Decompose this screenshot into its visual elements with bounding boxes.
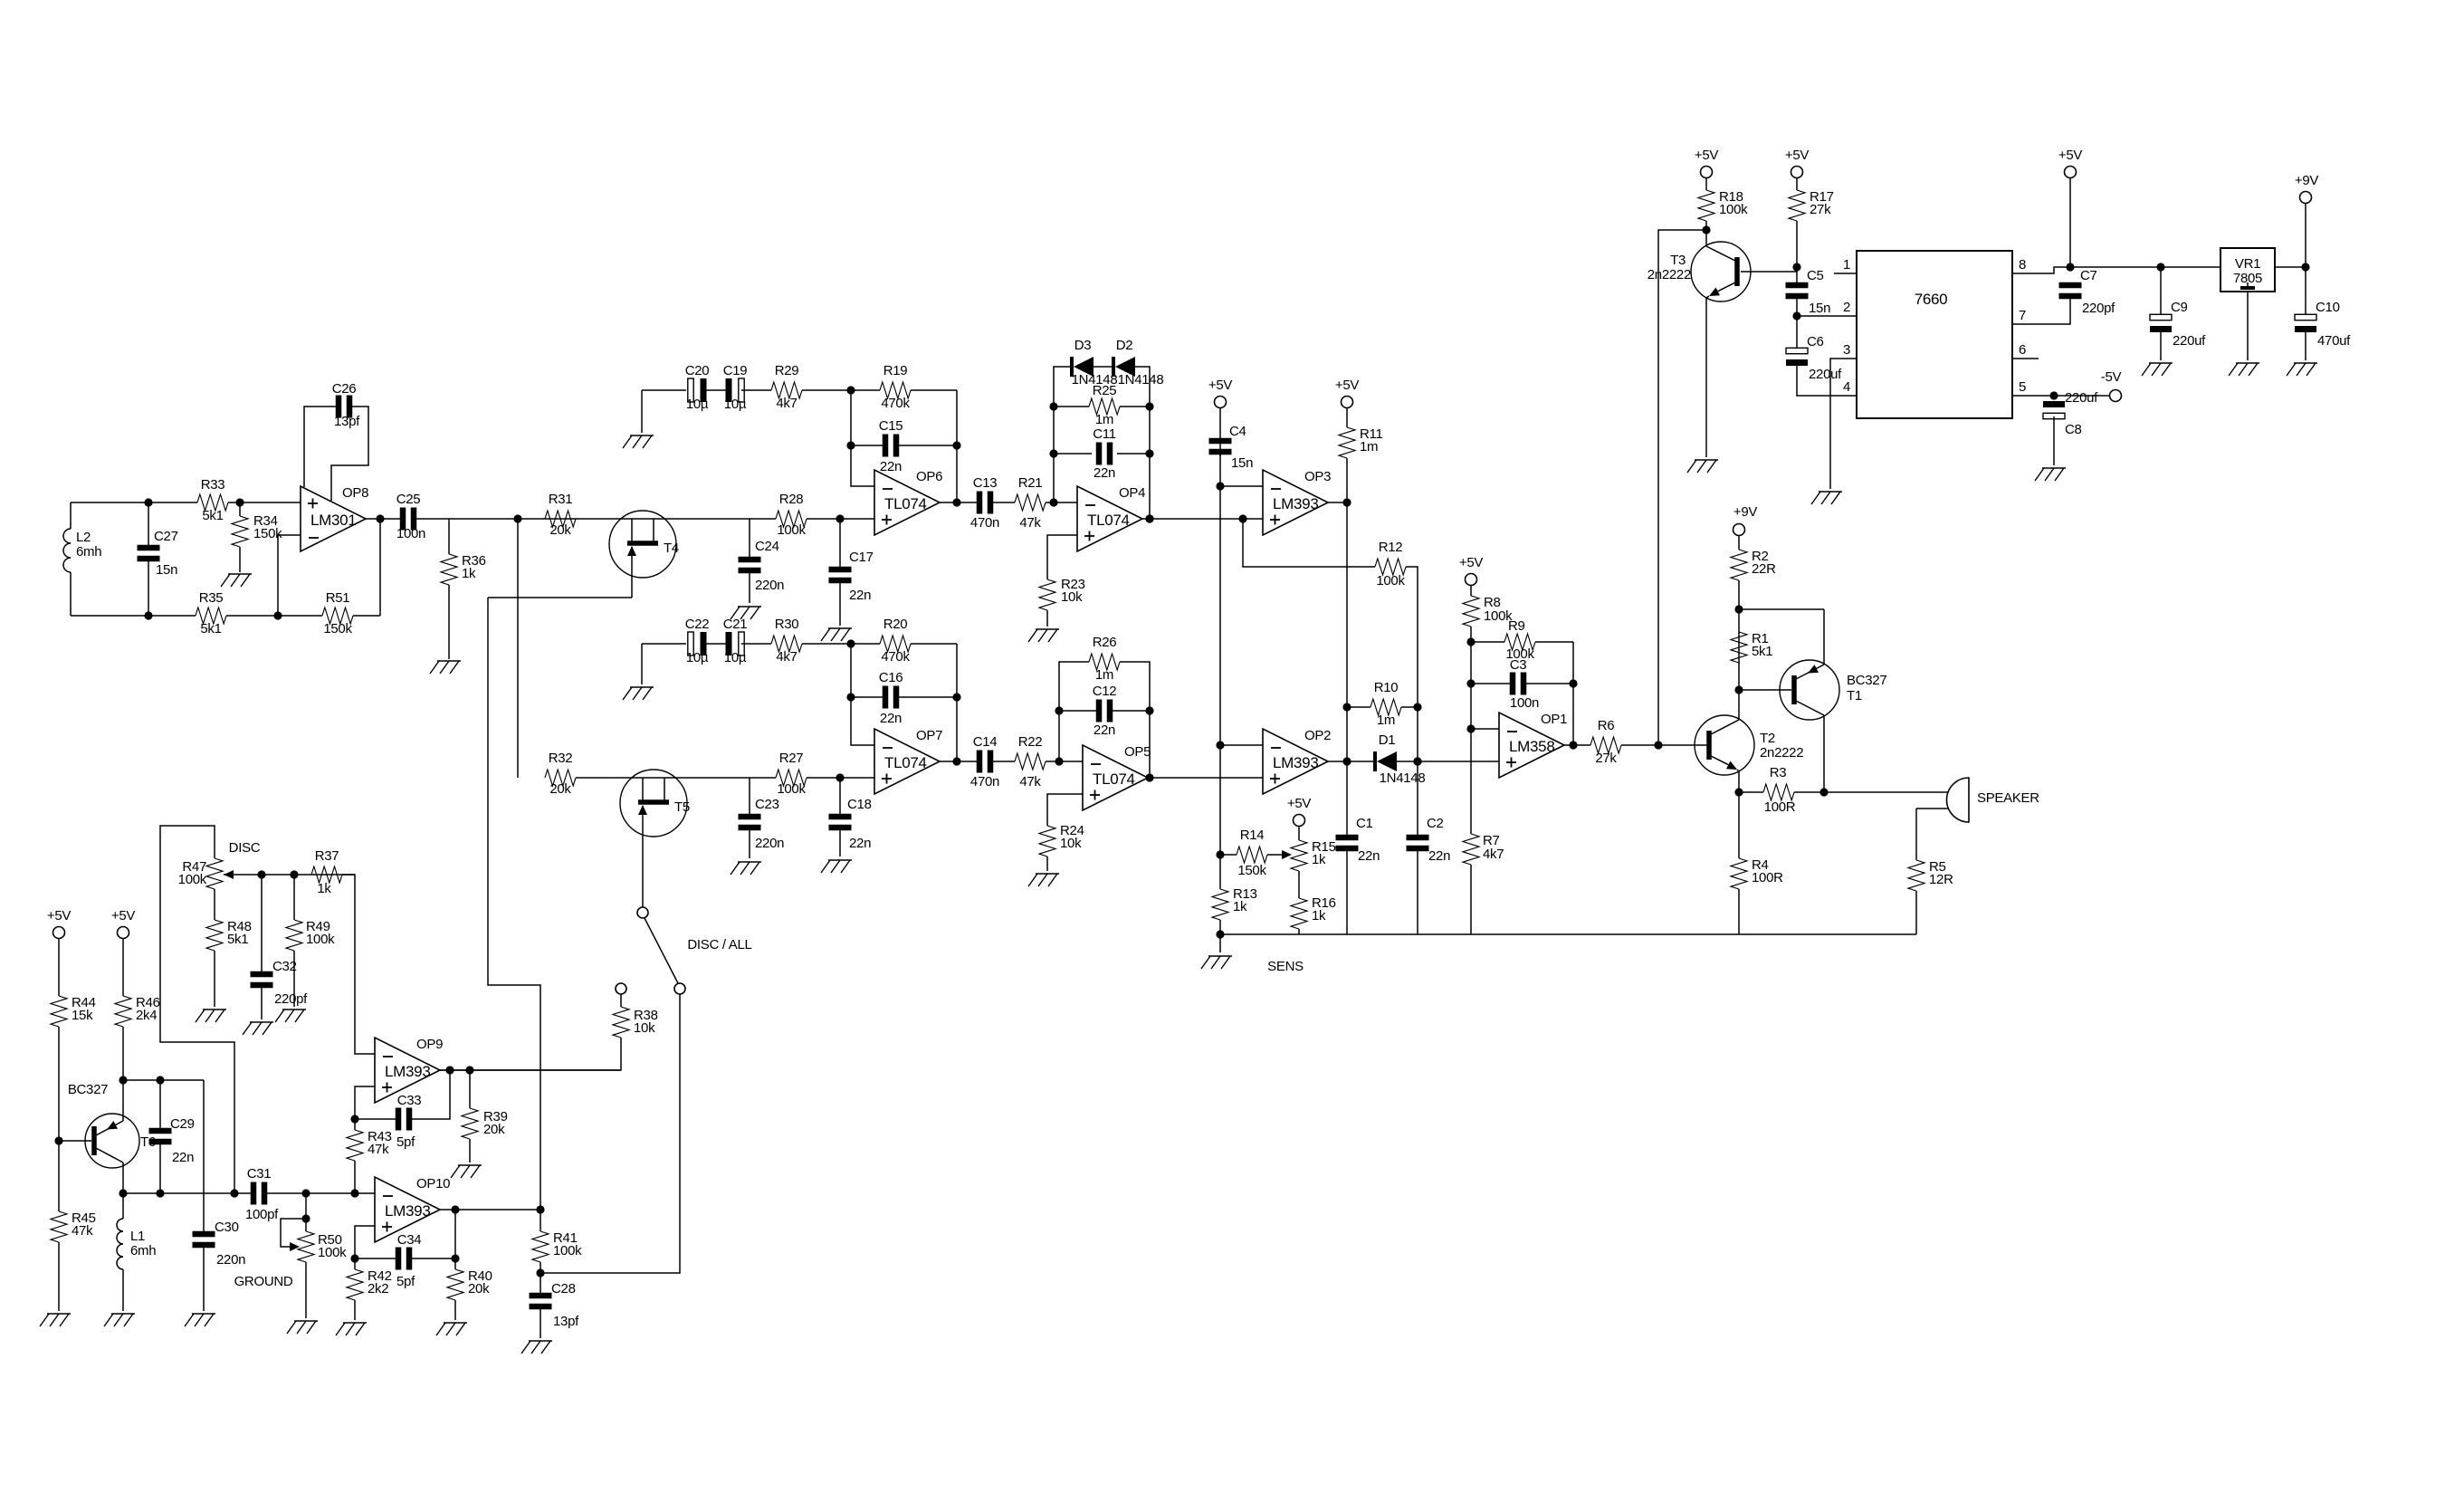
svg-text:1m: 1m [1360, 439, 1378, 455]
svg-text:+5V: +5V [1208, 378, 1233, 393]
svg-text:22n: 22n [880, 711, 902, 726]
svg-text:+5V: +5V [1287, 796, 1312, 811]
svg-text:LM358: LM358 [1509, 738, 1554, 755]
svg-text:100k: 100k [777, 781, 806, 797]
svg-text:20k: 20k [549, 522, 571, 538]
svg-text:LM393: LM393 [1273, 495, 1318, 512]
svg-text:T2: T2 [1760, 731, 1775, 746]
svg-text:4k7: 4k7 [1483, 847, 1504, 862]
svg-text:R26: R26 [1093, 635, 1117, 650]
svg-text:+9V: +9V [2295, 173, 2319, 188]
svg-text:470n: 470n [970, 515, 999, 531]
svg-text:+5V: +5V [1695, 148, 1719, 163]
svg-text:+5V: +5V [1459, 555, 1484, 570]
svg-text:D3: D3 [1074, 338, 1092, 353]
svg-text:C14: C14 [973, 734, 998, 750]
svg-text:+5V: +5V [47, 908, 72, 923]
svg-text:100R: 100R [1764, 799, 1796, 815]
svg-text:C3: C3 [1510, 657, 1527, 673]
svg-text:C7: C7 [2080, 268, 2097, 283]
svg-text:100k: 100k [553, 1243, 582, 1258]
svg-text:D2: D2 [1116, 338, 1133, 353]
svg-text:220pf: 220pf [2082, 301, 2115, 316]
svg-text:6mh: 6mh [130, 1243, 156, 1258]
svg-text:47k: 47k [1019, 774, 1041, 789]
svg-text:R51: R51 [326, 590, 350, 606]
svg-text:5k1: 5k1 [200, 621, 221, 636]
svg-text:C9: C9 [2171, 300, 2188, 315]
svg-text:220n: 220n [755, 836, 784, 851]
svg-text:150k: 150k [323, 621, 352, 636]
svg-text:4k7: 4k7 [776, 649, 797, 665]
svg-text:OP6: OP6 [916, 469, 942, 484]
svg-text:12R: 12R [1929, 872, 1953, 887]
svg-text:15n: 15n [156, 562, 177, 578]
svg-text:C5: C5 [1807, 268, 1824, 283]
svg-text:C28: C28 [551, 1281, 576, 1297]
svg-text:R10: R10 [1374, 680, 1399, 695]
svg-text:C6: C6 [1807, 334, 1824, 349]
svg-text:15k: 15k [72, 1008, 93, 1023]
svg-text:100k: 100k [777, 522, 806, 538]
svg-text:470k: 470k [881, 649, 910, 665]
svg-text:10µ: 10µ [724, 650, 747, 665]
svg-text:C1: C1 [1356, 816, 1373, 831]
svg-text:T4: T4 [664, 541, 679, 556]
svg-text:5pf: 5pf [396, 1134, 415, 1150]
svg-text:6: 6 [2019, 342, 2026, 358]
svg-text:R20: R20 [883, 617, 908, 632]
svg-text:OP3: OP3 [1304, 469, 1331, 484]
svg-text:LM393: LM393 [385, 1063, 430, 1080]
svg-text:100k: 100k [1719, 202, 1748, 217]
svg-text:100k: 100k [318, 1245, 347, 1260]
svg-text:OP10: OP10 [416, 1176, 450, 1191]
svg-text:VR1: VR1 [2235, 256, 2260, 272]
svg-text:10µ: 10µ [724, 397, 747, 412]
svg-text:OP1: OP1 [1541, 712, 1567, 727]
svg-text:C34: C34 [397, 1232, 422, 1248]
svg-text:20k: 20k [468, 1281, 490, 1297]
svg-text:15n: 15n [1809, 301, 1830, 316]
svg-text:10k: 10k [1061, 589, 1083, 605]
svg-text:C30: C30 [215, 1220, 239, 1235]
svg-text:R3: R3 [1770, 765, 1787, 780]
svg-text:100n: 100n [396, 526, 425, 541]
svg-text:470k: 470k [881, 396, 910, 411]
svg-text:220pf: 220pf [274, 991, 308, 1007]
svg-text:5k1: 5k1 [202, 508, 223, 523]
svg-text:R32: R32 [549, 751, 573, 766]
svg-text:R12: R12 [1379, 540, 1403, 555]
svg-text:C2: C2 [1427, 816, 1444, 831]
svg-text:C22: C22 [685, 617, 710, 632]
svg-text:22n: 22n [1094, 723, 1115, 738]
svg-text:C31: C31 [247, 1166, 272, 1182]
svg-text:22n: 22n [172, 1150, 194, 1165]
svg-text:SENS: SENS [1267, 959, 1304, 974]
svg-text:C24: C24 [755, 539, 779, 554]
svg-text:TL074: TL074 [884, 495, 927, 512]
svg-text:100pf: 100pf [245, 1207, 279, 1222]
svg-text:22n: 22n [880, 459, 902, 474]
svg-text:22R: 22R [1752, 561, 1776, 577]
svg-text:100k: 100k [306, 932, 335, 947]
svg-text:10µ: 10µ [686, 397, 709, 412]
svg-text:T1: T1 [1847, 688, 1862, 703]
svg-text:1m: 1m [1095, 412, 1113, 427]
svg-text:13pf: 13pf [553, 1314, 579, 1329]
svg-text:470n: 470n [970, 774, 999, 789]
svg-text:2k2: 2k2 [368, 1281, 388, 1297]
svg-text:2k4: 2k4 [136, 1008, 157, 1023]
svg-text:R29: R29 [775, 363, 799, 378]
svg-text:470uf: 470uf [2317, 333, 2351, 349]
svg-text:1N4148: 1N4148 [1118, 372, 1164, 388]
svg-text:C4: C4 [1229, 424, 1246, 439]
svg-text:13pf: 13pf [334, 414, 360, 429]
svg-text:47k: 47k [368, 1142, 389, 1157]
svg-text:SPEAKER: SPEAKER [1977, 790, 2039, 806]
svg-text:R31: R31 [549, 492, 573, 507]
svg-text:8: 8 [2019, 257, 2026, 273]
svg-text:R25: R25 [1093, 383, 1117, 398]
svg-text:TL074: TL074 [884, 754, 927, 771]
svg-text:10k: 10k [1060, 836, 1082, 851]
svg-text:DISC / ALL: DISC / ALL [687, 937, 751, 952]
svg-text:L2: L2 [76, 530, 91, 545]
svg-text:OP8: OP8 [342, 485, 368, 501]
svg-text:C15: C15 [879, 418, 903, 434]
svg-text:OP4: OP4 [1119, 485, 1145, 501]
svg-text:OP7: OP7 [916, 728, 942, 743]
svg-text:20k: 20k [483, 1122, 505, 1137]
svg-text:+5V: +5V [1335, 378, 1360, 393]
svg-text:TL074: TL074 [1087, 512, 1130, 529]
svg-text:C20: C20 [685, 363, 710, 378]
svg-text:4: 4 [1843, 379, 1850, 395]
svg-text:C21: C21 [723, 617, 748, 632]
svg-text:5k1: 5k1 [227, 932, 248, 947]
svg-text:4k7: 4k7 [776, 396, 797, 411]
svg-text:220uf: 220uf [2065, 390, 2098, 406]
svg-text:100n: 100n [1510, 695, 1539, 711]
svg-text:22n: 22n [1428, 848, 1450, 864]
svg-text:27k: 27k [1595, 751, 1617, 766]
svg-text:C29: C29 [170, 1116, 195, 1132]
svg-text:20k: 20k [549, 781, 571, 797]
svg-text:22n: 22n [1094, 465, 1115, 481]
svg-text:7660: 7660 [1915, 291, 1948, 308]
svg-text:DISC: DISC [229, 840, 261, 856]
svg-text:R22: R22 [1018, 734, 1043, 750]
svg-text:C33: C33 [397, 1093, 422, 1108]
svg-text:2: 2 [1843, 300, 1850, 315]
svg-text:OP5: OP5 [1124, 744, 1151, 760]
svg-text:T5: T5 [674, 799, 690, 815]
svg-text:BC327: BC327 [1847, 673, 1886, 688]
svg-text:C32: C32 [272, 959, 297, 974]
svg-text:150k: 150k [1237, 863, 1266, 878]
svg-text:220uf: 220uf [2173, 333, 2206, 349]
svg-text:C13: C13 [973, 475, 998, 491]
svg-text:C12: C12 [1093, 684, 1117, 699]
svg-text:+5V: +5V [2058, 148, 2083, 163]
svg-text:OP9: OP9 [416, 1037, 443, 1052]
svg-text:1k: 1k [1312, 852, 1326, 867]
svg-text:R6: R6 [1598, 718, 1615, 733]
svg-text:22n: 22n [849, 588, 871, 603]
svg-text:1m: 1m [1377, 713, 1395, 728]
svg-text:2n2222: 2n2222 [1647, 267, 1691, 282]
svg-text:47k: 47k [1019, 515, 1041, 531]
svg-text:C16: C16 [879, 670, 903, 685]
svg-text:R21: R21 [1018, 475, 1043, 491]
svg-text:R27: R27 [779, 751, 804, 766]
svg-text:LM301: LM301 [310, 512, 356, 529]
svg-text:220n: 220n [755, 578, 784, 593]
svg-text:BC327: BC327 [68, 1082, 108, 1097]
svg-text:27k: 27k [1810, 202, 1831, 217]
svg-text:1N4148: 1N4148 [1380, 770, 1426, 786]
svg-text:R30: R30 [775, 617, 799, 632]
svg-text:C8: C8 [2065, 422, 2082, 437]
svg-text:LM393: LM393 [385, 1202, 430, 1220]
svg-text:100k: 100k [178, 872, 207, 887]
svg-text:C18: C18 [847, 797, 872, 812]
svg-text:R37: R37 [315, 848, 339, 864]
svg-text:220uf: 220uf [1809, 367, 1842, 382]
svg-text:1k: 1k [1312, 908, 1326, 923]
svg-text:C10: C10 [2316, 300, 2340, 315]
svg-text:+5V: +5V [111, 908, 136, 923]
svg-text:-5V: -5V [2101, 369, 2122, 385]
svg-text:1: 1 [1843, 257, 1850, 273]
svg-text:2n2222: 2n2222 [1760, 745, 1803, 761]
svg-text:22n: 22n [1358, 848, 1380, 864]
svg-text:C11: C11 [1093, 426, 1116, 442]
svg-text:47k: 47k [72, 1223, 93, 1239]
svg-text:R14: R14 [1240, 828, 1265, 843]
svg-text:L1: L1 [130, 1229, 145, 1244]
svg-text:C26: C26 [332, 381, 357, 397]
svg-text:6mh: 6mh [76, 544, 101, 560]
svg-text:C27: C27 [154, 529, 178, 544]
svg-text:1k: 1k [462, 566, 476, 581]
svg-text:R9: R9 [1508, 618, 1525, 634]
svg-text:5k1: 5k1 [1752, 644, 1772, 659]
svg-text:C23: C23 [755, 797, 779, 812]
svg-text:+5V: +5V [1785, 148, 1810, 163]
svg-text:22n: 22n [849, 836, 871, 851]
svg-text:TL074: TL074 [1093, 770, 1135, 788]
svg-text:5: 5 [2019, 379, 2026, 395]
svg-text:C17: C17 [849, 550, 874, 565]
svg-text:15n: 15n [1231, 455, 1253, 471]
svg-text:R33: R33 [201, 477, 225, 493]
svg-text:7: 7 [2019, 308, 2026, 323]
svg-text:3: 3 [1843, 342, 1850, 358]
svg-text:R28: R28 [779, 492, 804, 507]
svg-text:OP2: OP2 [1304, 728, 1331, 743]
svg-text:R35: R35 [199, 590, 224, 606]
svg-text:LM393: LM393 [1273, 754, 1318, 771]
svg-text:1k: 1k [1233, 899, 1247, 914]
svg-text:10µ: 10µ [686, 650, 709, 665]
svg-text:5pf: 5pf [396, 1274, 415, 1289]
svg-text:D1: D1 [1379, 732, 1396, 748]
svg-text:T3: T3 [1670, 253, 1686, 268]
svg-text:100R: 100R [1752, 870, 1783, 885]
svg-text:C19: C19 [723, 363, 748, 378]
svg-text:100k: 100k [1376, 573, 1405, 589]
svg-text:1m: 1m [1095, 667, 1113, 683]
svg-text:R19: R19 [883, 363, 908, 378]
svg-text:C25: C25 [396, 492, 421, 507]
svg-text:10k: 10k [634, 1020, 655, 1036]
svg-text:1k: 1k [317, 881, 331, 896]
svg-text:GROUND: GROUND [234, 1274, 293, 1289]
svg-text:+9V: +9V [1733, 504, 1758, 520]
svg-text:220n: 220n [216, 1252, 245, 1268]
